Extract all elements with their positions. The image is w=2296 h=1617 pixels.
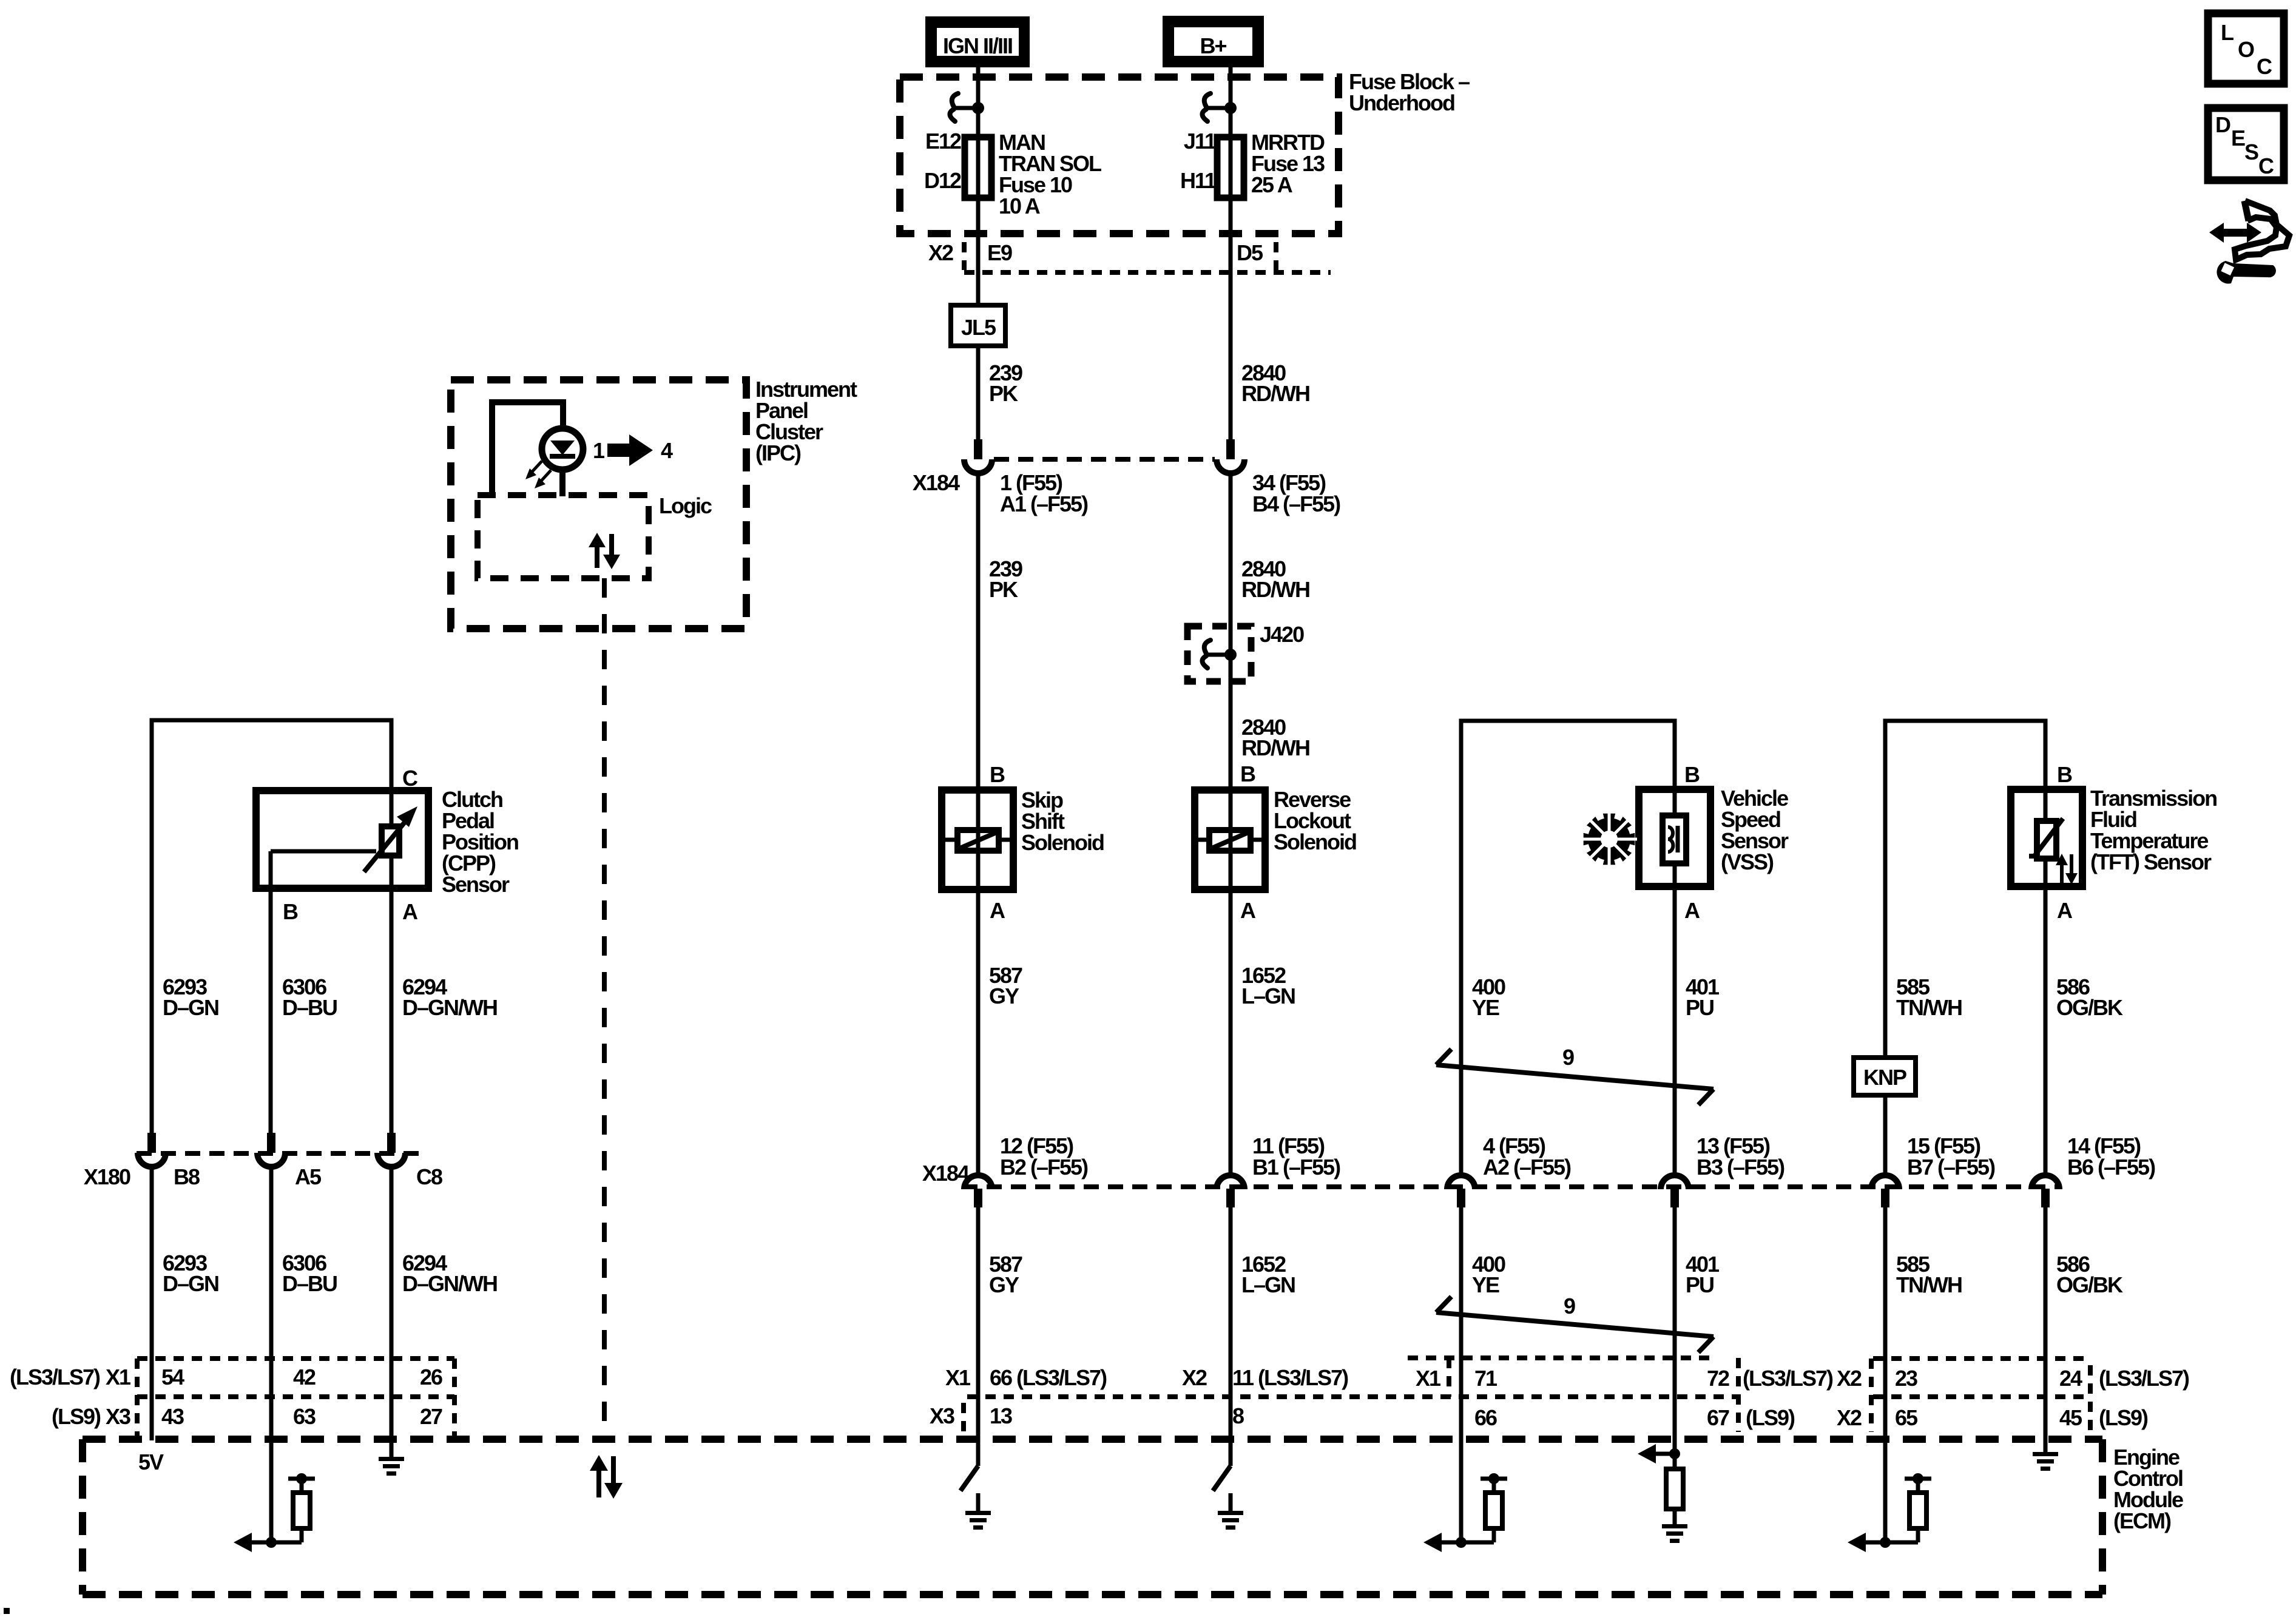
wire 5V loop top <box>152 720 391 1133</box>
wire label 6294 D-GN/WH <box>402 974 497 1020</box>
svg-text:(LS3/LS7): (LS3/LS7) <box>2099 1366 2189 1391</box>
svg-text:D5: D5 <box>1237 240 1263 265</box>
wire 400 YE lower <box>1459 1207 1464 1542</box>
svg-text:X2: X2 <box>1182 1365 1207 1390</box>
tap junction to MAN TRAN SOL fuse <box>950 93 984 121</box>
wire label 2840 RD/WH <box>1241 556 1309 602</box>
svg-text:B: B <box>990 762 1005 787</box>
TFT+ pullup resistor network <box>1848 1473 1931 1552</box>
X3 separator dots <box>961 1403 966 1432</box>
svg-text:L: L <box>2221 20 2234 45</box>
svg-text:O: O <box>2238 37 2254 62</box>
wire to JL5 <box>976 234 981 305</box>
svg-text:66: 66 <box>1474 1405 1497 1430</box>
fuse block underhood dashed box <box>900 77 1339 234</box>
wire 401 PU lower <box>1673 1207 1677 1454</box>
IPC dashed box <box>451 380 746 629</box>
TFT pin row box <box>1871 1359 2090 1435</box>
wire label 1652 L-GN <box>1241 963 1295 1008</box>
svg-text:63: 63 <box>293 1404 316 1429</box>
wire label 239 PK <box>989 360 1022 406</box>
svg-text:27: 27 <box>420 1404 442 1429</box>
svg-text:A: A <box>2057 898 2073 923</box>
svg-text:B3 (–F55): B3 (–F55) <box>1697 1155 1784 1180</box>
solenoid/VSS pin divider dotted <box>967 1394 1740 1399</box>
svg-text:OG/BK: OG/BK <box>2056 995 2123 1020</box>
svg-text:D–GN: D–GN <box>163 995 218 1020</box>
cross reference arrow 1 to 4 <box>607 434 653 466</box>
label Reverse Lockout Solenoid <box>1274 787 1356 854</box>
svg-text:E9: E9 <box>987 240 1012 265</box>
pin 15 (F55) B7 <box>1907 1133 1995 1180</box>
wire label 586 OG/BK <box>2056 974 2123 1020</box>
option box JL5 <box>951 305 1005 346</box>
svg-text:RD/WH: RD/WH <box>1241 735 1309 760</box>
svg-text:RD/WH: RD/WH <box>1241 381 1309 406</box>
svg-text:B: B <box>1684 762 1700 787</box>
svg-text:54: 54 <box>161 1365 184 1389</box>
VSS gear icon <box>1581 811 1637 867</box>
LED light arrows <box>525 461 551 488</box>
svg-text:X184: X184 <box>913 470 960 495</box>
pin 13 (F55) B3 <box>1697 1133 1784 1180</box>
svg-text:66 (LS3/LS7): 66 (LS3/LS7) <box>990 1365 1107 1390</box>
ECM dashed box <box>83 1439 2102 1595</box>
fuse MRRTD Fuse 13 <box>1217 137 1244 439</box>
twisted pair symbol 9 lower <box>1436 1294 1714 1352</box>
ECM up/down arrows <box>590 1455 623 1499</box>
wire 6294 D-GN/WH lower <box>390 1169 394 1457</box>
VSS sensor box <box>1639 789 1710 886</box>
svg-text:H11: H11 <box>1180 168 1217 193</box>
ground VSS- <box>1662 1524 1687 1543</box>
svg-text:A: A <box>1684 898 1700 923</box>
svg-text:X184: X184 <box>922 1161 970 1186</box>
wire label 2840 RD/WH below J420 <box>1241 715 1309 760</box>
pin 1 (F55) A1 <box>1000 470 1088 516</box>
svg-text:Solenoid: Solenoid <box>1021 830 1104 855</box>
svg-text:8: 8 <box>1232 1403 1244 1428</box>
wire 401 PU upper <box>1673 886 1677 1173</box>
svg-text:C: C <box>2258 154 2274 178</box>
svg-text:25 A: 25 A <box>1251 172 1293 197</box>
wire 585 TN/WH lower <box>1883 1207 1888 1542</box>
svg-text:D–GN/WH: D–GN/WH <box>402 1271 497 1296</box>
DESC icon box <box>2208 108 2284 180</box>
label Vehicle Speed Sensor (VSS) <box>1721 786 1789 874</box>
svg-text:L–GN: L–GN <box>1241 1272 1295 1297</box>
CPP sensor box <box>256 791 428 888</box>
svg-text:D: D <box>2215 112 2230 137</box>
svg-text:Logic: Logic <box>659 493 712 518</box>
indicator LED <box>542 428 583 496</box>
tap junction to MRRTD fuse <box>1202 93 1237 121</box>
wire label 6293 D-GN <box>163 1251 218 1296</box>
wire 587 GY lower <box>976 1207 981 1466</box>
wire 2840 RD/WH lower <box>1229 475 1233 790</box>
wire 6306 D-BU upper <box>269 851 273 1133</box>
svg-text:X180: X180 <box>84 1164 130 1189</box>
LOC icon box <box>2208 13 2284 84</box>
svg-text:(TFT) Sensor: (TFT) Sensor <box>2090 849 2212 874</box>
svg-text:1: 1 <box>593 438 605 463</box>
wire label 1652 L-GN <box>1241 1252 1295 1297</box>
svg-text:X2: X2 <box>1837 1366 1862 1391</box>
svg-text:X1: X1 <box>106 1365 131 1389</box>
svg-text:C: C <box>402 766 418 791</box>
pin 34 (F55) B4 <box>1252 470 1340 516</box>
svg-text:(IPC): (IPC) <box>755 441 801 465</box>
svg-text:65: 65 <box>1895 1405 1918 1430</box>
wire 239 PK upper <box>976 346 981 439</box>
wire label 585 TN/WH <box>1896 1252 1962 1297</box>
wire 586 OG/BK lower <box>2044 1207 2048 1452</box>
skip shift driver switch <box>961 1466 978 1511</box>
svg-text:D–GN/WH: D–GN/WH <box>402 995 497 1020</box>
fuse 10 value label <box>999 130 1101 218</box>
connector terminal 1652 L-GN <box>1217 1175 1244 1207</box>
wire 1652 L-GN lower <box>1229 1207 1233 1466</box>
svg-text:PU: PU <box>1686 995 1714 1020</box>
svg-text:X1: X1 <box>1416 1366 1441 1391</box>
svg-text:RD/WH: RD/WH <box>1241 577 1309 602</box>
reverse lockout solenoid box <box>1195 790 1265 890</box>
wire 587 GY upper <box>976 890 981 1173</box>
wire IGN feed <box>976 67 981 137</box>
svg-text:Sensor: Sensor <box>442 872 510 897</box>
svg-text:YE: YE <box>1472 995 1499 1020</box>
svg-text:YE: YE <box>1472 1272 1499 1297</box>
svg-text:X1: X1 <box>945 1365 971 1390</box>
dashed logic line to ECM <box>602 578 607 1437</box>
label Fuse Block - Underhood <box>1349 69 1470 115</box>
svg-text:B7 (–F55): B7 (–F55) <box>1907 1155 1995 1180</box>
connector X184 terminal (239 PK) <box>964 439 992 473</box>
svg-text:B: B <box>1240 761 1255 786</box>
wire label 401 PU <box>1686 1252 1720 1297</box>
wire label 585 TN/WH <box>1896 974 1962 1020</box>
svg-text:GY: GY <box>989 1272 1019 1297</box>
wire label 6294 D-GN/WH <box>402 1251 497 1296</box>
svg-text:26: 26 <box>420 1365 442 1389</box>
svg-text:E: E <box>2231 126 2245 150</box>
label Transmission Fluid Temperature (TFT) Sensor <box>2090 786 2217 874</box>
svg-text:4: 4 <box>661 438 673 463</box>
svg-text:43: 43 <box>161 1404 184 1429</box>
wire 6306 D-BU lower <box>269 1169 274 1542</box>
svg-text:9: 9 <box>1564 1294 1575 1318</box>
svg-text:(LS3/LS7): (LS3/LS7) <box>1743 1366 1833 1391</box>
CPP pin row box <box>137 1359 454 1437</box>
svg-text:23: 23 <box>1895 1366 1917 1391</box>
wire 239 PK lower <box>976 475 981 790</box>
wire 585 TN/WH loop <box>1885 721 2045 1058</box>
svg-text:X2: X2 <box>1837 1405 1862 1430</box>
svg-text:A5: A5 <box>295 1164 322 1189</box>
reverse lockout driver switch <box>1213 1466 1231 1511</box>
page mark <box>4 1608 10 1614</box>
svg-text:B4 (–F55): B4 (–F55) <box>1252 491 1340 516</box>
connector X180 terminal B8 <box>138 1133 166 1167</box>
wire label 6306 D-BU <box>282 974 337 1020</box>
svg-text:24: 24 <box>2059 1366 2082 1391</box>
svg-text:Underhood: Underhood <box>1349 90 1454 115</box>
svg-text:S: S <box>2244 140 2258 164</box>
svg-text:9: 9 <box>1562 1045 1574 1070</box>
wire 6293 D-GN lower <box>150 1169 154 1440</box>
wire label 6293 D-GN <box>163 974 218 1020</box>
connector X2 row of fuse block <box>928 240 1331 272</box>
svg-text:JL5: JL5 <box>961 315 996 340</box>
twisted pair symbol 9 upper <box>1436 1045 1714 1105</box>
svg-text:J420: J420 <box>1260 622 1304 647</box>
svg-text:C8: C8 <box>416 1164 442 1189</box>
svg-text:OG/BK: OG/BK <box>2056 1272 2123 1297</box>
wire 586 OG/BK upper <box>2044 886 2048 1173</box>
svg-text:TN/WH: TN/WH <box>1896 1272 1962 1297</box>
svg-text:B+: B+ <box>1200 33 1226 58</box>
svg-text:B8: B8 <box>174 1164 200 1189</box>
VSS- load resistor to ground <box>1638 1444 1683 1524</box>
wire loop to indicator <box>492 402 563 495</box>
svg-text:D–BU: D–BU <box>282 995 337 1020</box>
logic dashed box <box>478 495 649 578</box>
svg-text:A1 (–F55): A1 (–F55) <box>1000 491 1088 516</box>
fuse 13 value label <box>1251 130 1325 197</box>
wire 585 below KNP <box>1883 1095 1888 1173</box>
connector X180 terminal A5 <box>257 1133 285 1167</box>
connector X184 terminal (2840 RD/WH) <box>1217 439 1244 473</box>
VSS+ pullup resistor network <box>1423 1473 1507 1552</box>
connector terminal 400 YE <box>1447 1175 1475 1207</box>
svg-text:(LS9): (LS9) <box>52 1404 101 1429</box>
svg-text:Solenoid: Solenoid <box>1274 829 1356 854</box>
svg-text:TN/WH: TN/WH <box>1896 995 1962 1020</box>
svg-text:B: B <box>2057 762 2072 787</box>
label Engine Control Module (ECM) <box>2113 1445 2183 1533</box>
fuse MAN TRAN SOL Fuse 10 <box>965 137 991 234</box>
svg-text:B6 (–F55): B6 (–F55) <box>2067 1155 2155 1180</box>
pin 11 (F55) B1 <box>1252 1133 1340 1180</box>
connector terminal 401 PU <box>1661 1175 1689 1207</box>
navigation icon arrows and wrench <box>2209 201 2289 284</box>
svg-text:11 (LS3/LS7): 11 (LS3/LS7) <box>1232 1365 1348 1390</box>
pin 12 (F55) B2 <box>1000 1133 1088 1180</box>
connector terminal 587 GY <box>964 1175 992 1207</box>
wire label 6306 D-BU <box>282 1251 337 1296</box>
wire 400 YE loop <box>1461 721 1675 1173</box>
svg-text:(LS3/LS7): (LS3/LS7) <box>10 1365 100 1389</box>
svg-text:KNP: KNP <box>1863 1065 1906 1090</box>
svg-text:PK: PK <box>989 577 1018 602</box>
ground CPP low reference <box>379 1457 404 1476</box>
svg-text:X2: X2 <box>928 240 953 265</box>
svg-text:C: C <box>2257 54 2272 79</box>
svg-text:(LS9): (LS9) <box>1746 1405 1795 1430</box>
connector X184 row2 dashed line <box>962 1184 2061 1189</box>
connector X184 dashed line <box>994 457 1215 462</box>
svg-text:5V: 5V <box>138 1450 164 1474</box>
label Instrument Panel Cluster (IPC) <box>755 377 857 465</box>
label Skip Shift Solenoid <box>1021 788 1104 855</box>
svg-text:B: B <box>283 899 298 924</box>
wire 1652 L-GN upper <box>1229 890 1233 1173</box>
wire B+ feed <box>1229 67 1233 137</box>
wire label 2840 RD/WH <box>1241 360 1309 406</box>
svg-text:D12: D12 <box>924 168 961 193</box>
svg-text:A: A <box>990 898 1005 923</box>
CPP signal pullup resistor network <box>234 1473 315 1552</box>
svg-text:(VSS): (VSS) <box>1721 849 1774 874</box>
connector terminal 586 OG/BK <box>2031 1175 2059 1207</box>
svg-text:X3: X3 <box>106 1404 130 1429</box>
svg-text:(LS9): (LS9) <box>2099 1405 2148 1430</box>
TFT sensor box <box>2011 789 2082 886</box>
svg-text:B2 (–F55): B2 (–F55) <box>1000 1155 1088 1180</box>
svg-text:IGN II/III: IGN II/III <box>943 33 1012 58</box>
pin 14 (F55) B6 <box>2067 1133 2155 1180</box>
ground skip shift driver <box>965 1511 991 1530</box>
svg-text:45: 45 <box>2059 1405 2082 1430</box>
svg-text:A: A <box>402 899 418 924</box>
option box KNP <box>1854 1058 1916 1095</box>
wire label 587 GY <box>989 963 1022 1008</box>
logic up/down arrows <box>589 533 620 569</box>
CPP potentiometer <box>271 791 417 888</box>
wire label 586 OG/BK <box>2056 1252 2123 1297</box>
label (LS9) X3 <box>52 1404 130 1429</box>
svg-text:67: 67 <box>1707 1405 1729 1430</box>
svg-text:J11: J11 <box>1184 129 1217 154</box>
label Clutch Pedal Position (CPP) Sensor <box>442 787 518 897</box>
svg-text:L–GN: L–GN <box>1241 984 1295 1008</box>
svg-text:72: 72 <box>1707 1366 1729 1391</box>
label (LS3/LS7) X1 <box>10 1365 131 1389</box>
svg-text:PK: PK <box>989 381 1018 406</box>
power feed box B+ <box>1163 16 1264 67</box>
splice J420 <box>1187 626 1251 681</box>
ground TFT- <box>2033 1452 2058 1471</box>
power feed box IGN II/III <box>925 16 1030 67</box>
svg-text:D–BU: D–BU <box>282 1271 337 1296</box>
svg-text:A: A <box>1240 898 1256 923</box>
svg-text:71: 71 <box>1474 1366 1497 1391</box>
svg-text:GY: GY <box>989 984 1019 1008</box>
svg-text:13: 13 <box>990 1403 1012 1428</box>
VSS pin row box <box>1408 1358 1738 1432</box>
wire label 400 YE <box>1472 974 1505 1020</box>
svg-text:10 A: 10 A <box>999 194 1041 218</box>
connector terminal 585 TN/WH <box>1871 1175 1899 1207</box>
svg-text:(ECM): (ECM) <box>2113 1508 2171 1533</box>
wire label 401 PU <box>1686 974 1720 1020</box>
connector X180 terminal C8 <box>377 1133 405 1167</box>
wire label 239 PK <box>989 556 1022 602</box>
pin 4 (F55) A2 <box>1483 1133 1571 1180</box>
wire label 587 GY <box>989 1252 1022 1297</box>
wire 6294 D-GN/WH upper <box>390 888 394 1133</box>
svg-text:A2 (–F55): A2 (–F55) <box>1483 1155 1571 1180</box>
ground reverse lockout driver <box>1218 1511 1243 1530</box>
svg-text:B1 (–F55): B1 (–F55) <box>1252 1155 1340 1180</box>
svg-text:PU: PU <box>1686 1272 1714 1297</box>
connector X180 row <box>137 1151 425 1156</box>
svg-text:D–GN: D–GN <box>163 1271 218 1296</box>
skip shift solenoid box <box>942 790 1013 890</box>
svg-text:42: 42 <box>293 1365 316 1389</box>
svg-text:E12: E12 <box>925 129 961 154</box>
svg-text:X3: X3 <box>930 1403 954 1428</box>
wire label 400 YE <box>1472 1252 1505 1297</box>
